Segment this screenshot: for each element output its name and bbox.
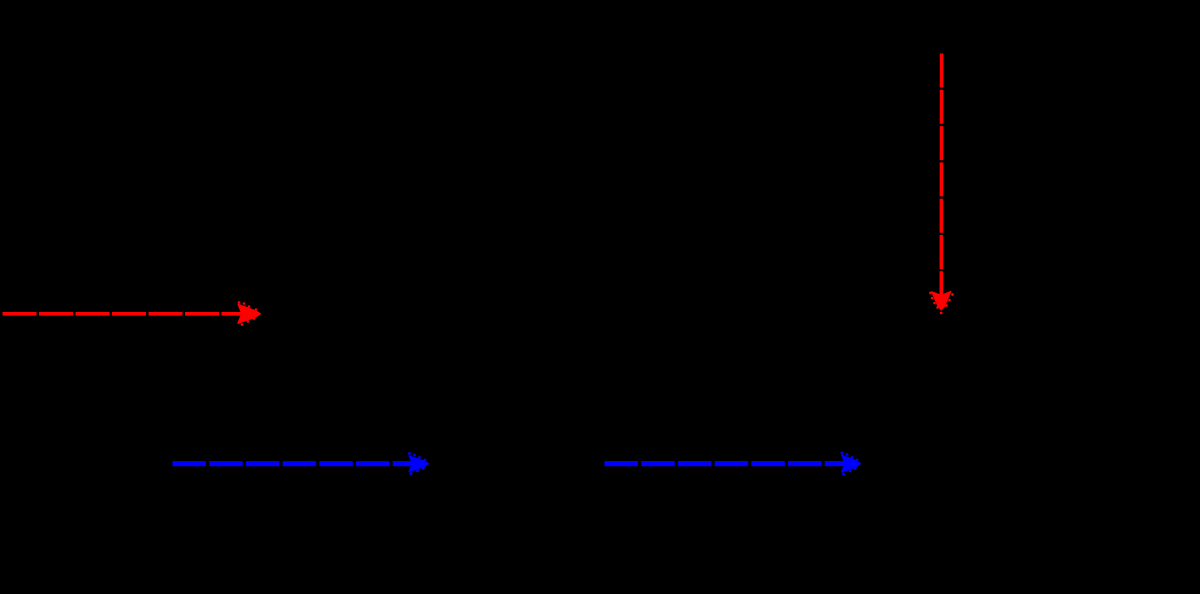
wire: red vertical shaft: [939, 54, 943, 306]
blue dashed arrow 2 (lower middle, pointing right): [605, 452, 861, 475]
wire: blue shaft 2: [605, 461, 854, 466]
red horizontal arrowhead: [238, 304, 261, 323]
red vertical dashed arrow (top right, pointing down): [930, 54, 954, 314]
wire: red horizontal shaft: [3, 312, 253, 316]
red vertical arrowhead: [932, 291, 951, 310]
red horizontal dashed arrow (left, pointing right): [3, 302, 261, 326]
blue arrowhead 2: [842, 455, 861, 472]
wire: blue shaft 1: [173, 461, 422, 466]
blue dashed arrow 1 (lower left, pointing right): [173, 453, 429, 475]
blue arrowhead 1: [409, 456, 428, 472]
